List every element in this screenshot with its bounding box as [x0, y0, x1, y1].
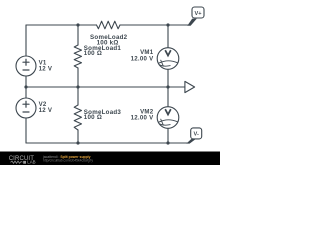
- svg-text:100 Ω: 100 Ω: [84, 114, 102, 121]
- svg-text:100 Ω: 100 Ω: [84, 50, 102, 57]
- svg-text:12.00 V: 12.00 V: [131, 55, 154, 62]
- svg-text:V-: V-: [194, 132, 199, 138]
- svg-text:12 V: 12 V: [39, 107, 53, 114]
- svg-text:LAB: LAB: [27, 160, 35, 165]
- svg-text:12 V: 12 V: [39, 66, 53, 73]
- svg-text:12.00 V: 12.00 V: [131, 115, 154, 122]
- svg-text:V+: V+: [195, 11, 203, 17]
- svg-text:http∕∕circuitlab.com∕c∕b45k4c6: http∕∕circuitlab.com∕c∕b45k4c6afg7y: [43, 159, 93, 163]
